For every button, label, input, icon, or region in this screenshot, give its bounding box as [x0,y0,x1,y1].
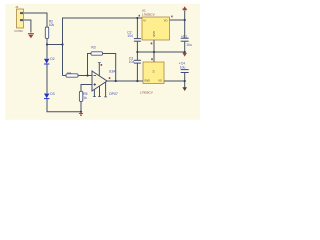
svg-text:GND: GND [144,79,150,83]
svg-text:+C1: +C1 [181,34,187,38]
svg-text:104: 104 [129,60,135,64]
svg-text:104: 104 [127,34,133,38]
svg-text:D3: D3 [50,92,54,96]
svg-text:D2: D2 [50,57,54,61]
svg-text:10u: 10u [180,65,186,69]
svg-text:R4: R4 [67,71,71,75]
svg-text:10u: 10u [186,43,192,47]
svg-text:R3: R3 [91,46,95,50]
svg-text:VI: VI [143,18,146,22]
svg-text:U3A: U3A [109,70,116,74]
svg-text:J1: J1 [15,5,19,9]
svg-text:L7805CV: L7805CV [142,13,156,17]
svg-text:VO: VO [158,79,162,83]
svg-text:CON2: CON2 [14,29,23,33]
svg-text:10k: 10k [49,23,55,27]
svg-text:OP07: OP07 [109,92,118,96]
svg-text:1k: 1k [83,96,87,100]
svg-text:VO: VO [164,18,168,22]
svg-text:GND: GND [152,31,156,37]
svg-text:VI: VI [152,70,156,73]
svg-text:L7905CV: L7905CV [140,90,154,94]
